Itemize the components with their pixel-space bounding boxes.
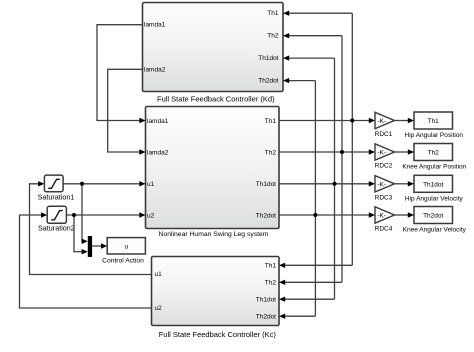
- svg-text:Saturation2: Saturation2: [38, 223, 75, 232]
- svg-text:lamda2: lamda2: [147, 149, 169, 156]
- svg-text:-K-: -K-: [377, 150, 386, 157]
- svg-text:Th2: Th2: [428, 150, 440, 157]
- wire Th2dot net: [279, 78, 375, 319]
- wire u2 net (Kc out 2 to Saturation2): [20, 212, 152, 308]
- display block Th1dot: [414, 175, 453, 192]
- saturation block Saturation2: [47, 206, 66, 223]
- svg-text:Saturation1: Saturation1: [38, 193, 75, 202]
- wire RDC1 to display Th1: [395, 118, 415, 123]
- subsystem block Kc (Full State Feedback Controller (Kc)): [152, 257, 280, 326]
- svg-text:Th2: Th2: [265, 280, 277, 287]
- svg-text:lamda2: lamda2: [144, 66, 166, 73]
- svg-text:Knee Angular Position: Knee Angular Position: [402, 164, 466, 171]
- gain RDC2: [375, 144, 395, 160]
- saturation block Saturation1: [44, 175, 63, 192]
- wire RDC3 to display Th1dot: [395, 181, 415, 186]
- svg-text:u: u: [124, 243, 128, 250]
- gain RDC1: [375, 112, 395, 128]
- svg-text:Th2: Th2: [267, 33, 279, 40]
- subsystem block Plant (Nonlinear Human Swing Leg system): [146, 107, 280, 229]
- svg-text:Full State Feedback Controller: Full State Feedback Controller (Kc): [159, 330, 277, 339]
- svg-text:Th2dot: Th2dot: [256, 212, 276, 219]
- display block u (Control Action): [107, 238, 145, 254]
- wire lamda2 net (Kd out 2 to plant in 2): [108, 69, 146, 154]
- svg-text:RDC4: RDC4: [375, 226, 393, 233]
- wire Saturation1 out to plant u1 and mux: [63, 181, 145, 244]
- wire lamda1 net (Kd out 1 to plant in 1): [97, 25, 146, 124]
- svg-text:Th2dot: Th2dot: [423, 213, 443, 220]
- svg-text:u1: u1: [155, 271, 163, 278]
- svg-text:RDC1: RDC1: [375, 131, 393, 138]
- svg-text:Nonlinear Human Swing Leg syst: Nonlinear Human Swing Leg system: [159, 231, 269, 238]
- svg-text:-K-: -K-: [377, 213, 386, 220]
- wire Th2 net: [279, 33, 375, 285]
- svg-text:Knee Angular Velocity: Knee Angular Velocity: [403, 227, 467, 234]
- wire Th1dot net: [279, 55, 375, 302]
- svg-text:Full State Feedback Controller: Full State Feedback Controller (Kd): [157, 94, 275, 103]
- svg-text:Th1: Th1: [428, 118, 440, 125]
- wire Th1 net: [279, 11, 375, 269]
- svg-text:Th2dot: Th2dot: [258, 78, 278, 85]
- svg-text:RDC2: RDC2: [375, 163, 393, 170]
- svg-text:Th1: Th1: [265, 263, 277, 270]
- svg-text:lamda1: lamda1: [147, 118, 169, 125]
- gain RDC3: [375, 176, 395, 192]
- svg-text:Th1: Th1: [267, 10, 279, 17]
- svg-text:RDC3: RDC3: [375, 195, 393, 202]
- svg-text:Control Action: Control Action: [102, 257, 144, 264]
- svg-text:Hip Angular Velocity: Hip Angular Velocity: [405, 195, 464, 202]
- svg-text:Th1dot: Th1dot: [256, 181, 276, 188]
- svg-text:Th1: Th1: [265, 118, 277, 125]
- svg-text:Th2: Th2: [265, 149, 277, 156]
- wire u1 net (Kc out 1 to Saturation1): [30, 181, 152, 274]
- display block Th2: [414, 144, 453, 161]
- wire RDC4 to display Th2dot: [395, 212, 415, 217]
- wire mux out to display u: [92, 243, 107, 248]
- wire Saturation2 out to plant u2 and mux: [66, 212, 145, 254]
- svg-text:-K-: -K-: [377, 181, 386, 188]
- svg-text:u1: u1: [147, 181, 155, 188]
- display block Th1: [414, 112, 453, 129]
- svg-text:Th1dot: Th1dot: [258, 55, 278, 62]
- subsystem block Kd (Full State Feedback Controller (Kd)): [143, 3, 284, 92]
- svg-text:Th1dot: Th1dot: [423, 181, 443, 188]
- svg-text:u2: u2: [147, 212, 155, 219]
- svg-text:-K-: -K-: [377, 118, 386, 125]
- svg-text:lamda1: lamda1: [144, 21, 166, 28]
- svg-text:u2: u2: [155, 305, 163, 312]
- svg-text:Th1dot: Th1dot: [256, 297, 276, 304]
- gain RDC4: [375, 207, 395, 223]
- wire RDC2 to display Th2: [395, 149, 415, 154]
- svg-text:Th2dot: Th2dot: [256, 314, 276, 321]
- display block Th2dot: [414, 207, 453, 224]
- mux block: [88, 236, 92, 257]
- svg-text:Hip Angular Position: Hip Angular Position: [405, 132, 464, 139]
